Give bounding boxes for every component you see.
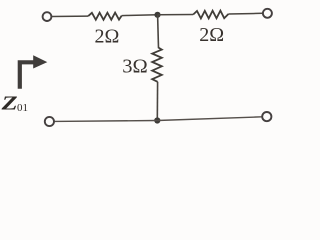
wire R3 down to bottom node (156, 82, 158, 121)
svg-text:2Ω: 2Ω (95, 26, 120, 48)
wire node down to R3 (157, 15, 160, 48)
terminal bottom-right (262, 112, 271, 121)
arrow Z01 (input impedance arrow) (18, 60, 34, 89)
arrow head (33, 55, 47, 68)
terminal bottom-left (45, 117, 54, 126)
wire top-left (52, 15, 89, 17)
svg-text:Z: Z (0, 94, 17, 115)
wire bottom-left rail (54, 120, 157, 123)
svg-text:3Ω: 3Ω (122, 56, 148, 78)
terminal top-right (263, 9, 272, 18)
wire R1 to node (122, 14, 158, 17)
resistor R1 2Ω (88, 13, 122, 20)
node junction bottom (154, 117, 160, 123)
wire bottom-right rail (157, 117, 262, 121)
wire node to R2 (158, 14, 194, 16)
resistor R2 2Ω (193, 11, 228, 19)
svg-text:2Ω: 2Ω (199, 24, 224, 46)
resistor R3 3Ω (vertical) (152, 48, 162, 82)
wire R2 to right terminal (228, 12, 262, 15)
terminal top-left (43, 12, 52, 21)
node junction top (154, 12, 160, 18)
svg-text:01: 01 (17, 102, 28, 114)
